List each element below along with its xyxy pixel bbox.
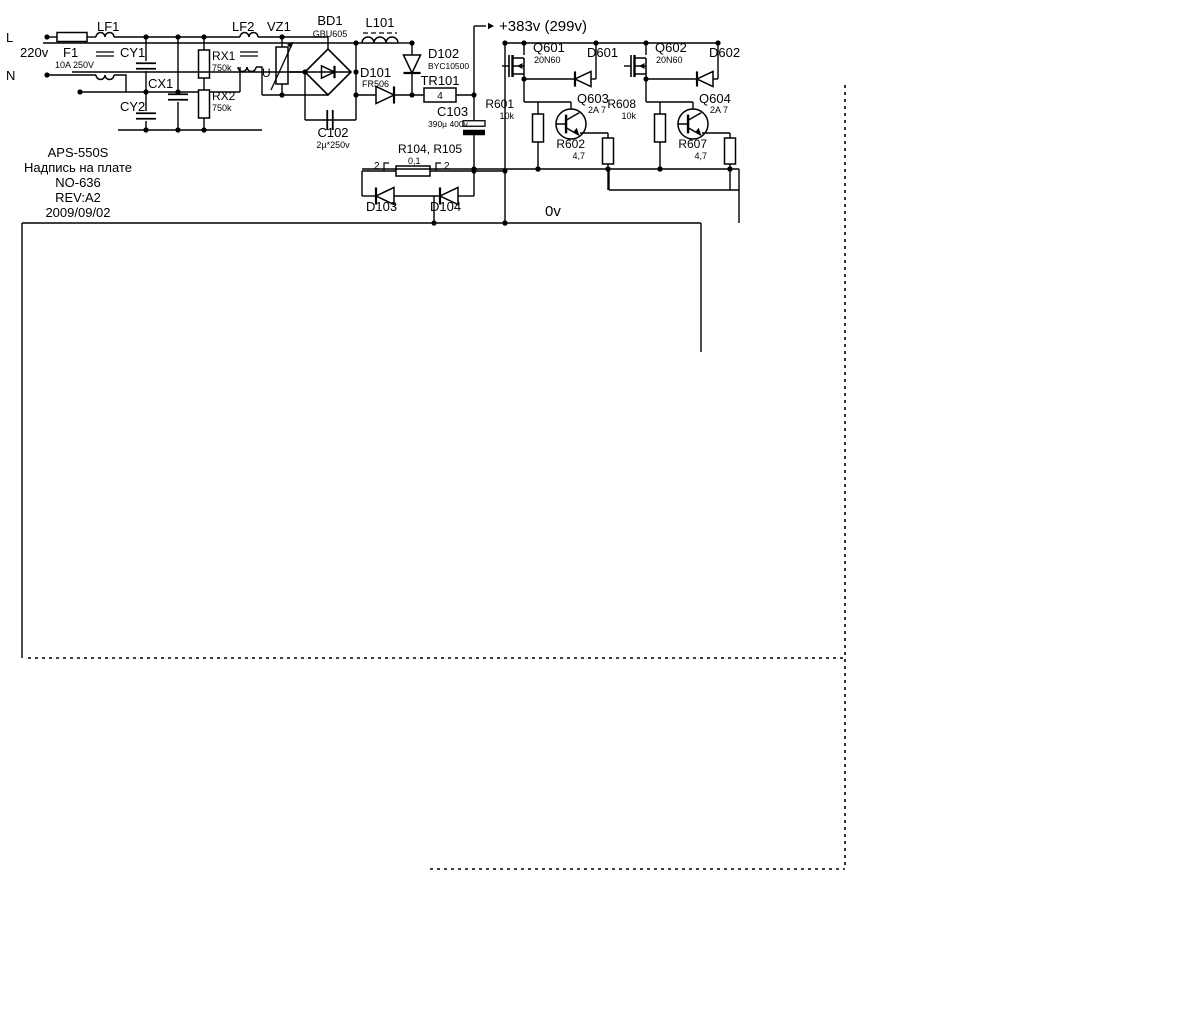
svg-text:BD1: BD1 [317,13,342,28]
svg-text:Надпись на плате: Надпись на плате [24,160,132,175]
svg-text:C102: C102 [317,125,348,140]
svg-text:R104, R105: R104, R105 [398,142,462,156]
svg-text:NO-636: NO-636 [55,175,101,190]
svg-text:R602: R602 [556,137,585,151]
svg-text:D102: D102 [428,46,459,61]
svg-text:CY1: CY1 [120,45,145,60]
svg-text:LF2: LF2 [232,19,254,34]
svg-text:10k: 10k [621,111,636,121]
svg-text:L: L [6,30,13,45]
svg-text:LF1: LF1 [97,19,119,34]
svg-text:GBU605: GBU605 [313,29,348,39]
svg-text:4: 4 [437,91,443,102]
svg-text:2: 2 [444,161,450,172]
svg-text:20N60: 20N60 [534,55,561,65]
svg-text:Q604: Q604 [699,91,731,106]
svg-text:RX2: RX2 [212,89,236,103]
svg-text:F1: F1 [63,45,78,60]
svg-text:2009/09/02: 2009/09/02 [45,205,110,220]
svg-text:RX1: RX1 [212,49,236,63]
svg-text:CX1: CX1 [148,76,173,91]
svg-text:CY2: CY2 [120,99,145,114]
svg-text:R608: R608 [607,97,636,111]
svg-text:APS-550S: APS-550S [48,145,109,160]
svg-text:4,7: 4,7 [572,151,585,161]
svg-text:D601: D601 [587,45,618,60]
svg-text:4,7: 4,7 [694,151,707,161]
svg-text:Q603: Q603 [577,91,609,106]
svg-text:N: N [6,68,15,83]
svg-text:BYC10500: BYC10500 [428,61,469,71]
svg-text:2A 7: 2A 7 [710,105,728,115]
svg-text:390µ 400v: 390µ 400v [428,119,469,129]
svg-text:REV:A2: REV:A2 [55,190,101,205]
svg-text:TR101: TR101 [420,73,459,88]
svg-text:2: 2 [374,161,380,172]
svg-text:20N60: 20N60 [656,55,683,65]
svg-text:D103: D103 [366,199,397,214]
svg-text:Q601: Q601 [533,40,565,55]
svg-text:0,1: 0,1 [408,156,421,166]
svg-text:10A 250V: 10A 250V [55,60,94,70]
svg-text:FR506: FR506 [362,79,389,89]
svg-text:10k: 10k [499,111,514,121]
svg-text:+383v (299v): +383v (299v) [499,18,587,35]
svg-text:L101: L101 [366,15,395,30]
svg-text:0v: 0v [545,203,561,220]
svg-text:2µ*250v: 2µ*250v [316,140,350,150]
svg-text:U: U [262,66,271,80]
svg-text:Q602: Q602 [655,40,687,55]
svg-text:220v: 220v [20,45,49,60]
svg-text:R601: R601 [485,97,514,111]
svg-text:C103: C103 [437,104,468,119]
svg-text:750k: 750k [212,103,232,113]
svg-text:VZ1: VZ1 [267,19,291,34]
svg-text:D602: D602 [709,45,740,60]
svg-text:2A 7: 2A 7 [588,105,606,115]
svg-text:D101: D101 [360,65,391,80]
svg-text:R607: R607 [678,137,707,151]
